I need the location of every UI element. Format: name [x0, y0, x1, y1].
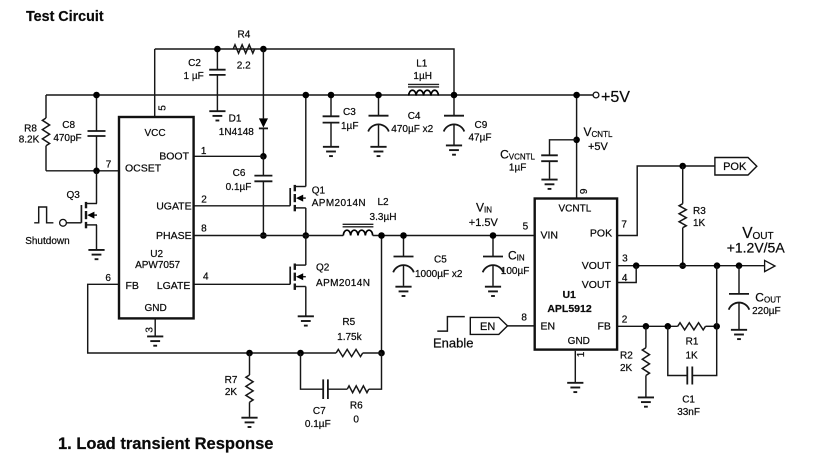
- svg-text:POK: POK: [590, 228, 612, 240]
- svg-text:+1.2V/5A: +1.2V/5A: [727, 239, 786, 255]
- svg-text:C8: C8: [62, 120, 75, 131]
- svg-text:1µF: 1µF: [341, 121, 358, 132]
- svg-text:8.2K: 8.2K: [19, 135, 40, 146]
- svg-text:1K: 1K: [693, 218, 706, 229]
- svg-text:5: 5: [157, 105, 168, 111]
- svg-text:APM2014N: APM2014N: [312, 198, 366, 209]
- svg-text:C5: C5: [434, 255, 447, 266]
- svg-text:D1: D1: [229, 114, 242, 125]
- svg-text:C4: C4: [408, 111, 421, 122]
- svg-text:+5V: +5V: [601, 89, 630, 106]
- svg-text:R4: R4: [238, 30, 251, 41]
- svg-text:4: 4: [203, 271, 209, 282]
- svg-text:2.2: 2.2: [237, 61, 251, 72]
- svg-text:C1: C1: [682, 395, 695, 406]
- svg-text:1µH: 1µH: [413, 71, 432, 82]
- svg-text:VCNTL: VCNTL: [559, 203, 592, 214]
- svg-text:U2: U2: [150, 249, 163, 260]
- svg-text:VOUT: VOUT: [582, 260, 612, 272]
- svg-text:470µF x2: 470µF x2: [391, 124, 433, 135]
- svg-text:R6: R6: [350, 400, 363, 411]
- svg-text:4: 4: [622, 273, 628, 284]
- svg-text:APW7057: APW7057: [135, 260, 180, 271]
- svg-text:FB: FB: [126, 280, 139, 292]
- svg-text:R3: R3: [693, 206, 706, 217]
- svg-text:Q2: Q2: [316, 262, 330, 273]
- svg-text:EN: EN: [541, 321, 556, 333]
- svg-text:220µF: 220µF: [752, 306, 781, 317]
- svg-text:0: 0: [353, 415, 359, 426]
- svg-text:Shutdown: Shutdown: [25, 236, 69, 247]
- svg-text:1µF: 1µF: [509, 162, 526, 173]
- svg-text:EN: EN: [480, 321, 495, 333]
- svg-text:2: 2: [201, 194, 207, 205]
- svg-text:R8: R8: [24, 123, 37, 134]
- svg-text:APM2014N: APM2014N: [316, 278, 370, 289]
- svg-text:2K: 2K: [225, 387, 238, 398]
- svg-text:9: 9: [579, 188, 590, 194]
- svg-text:8: 8: [521, 312, 527, 323]
- svg-text:Q1: Q1: [312, 185, 326, 196]
- svg-text:C2: C2: [188, 58, 201, 69]
- svg-text:2K: 2K: [620, 363, 633, 374]
- svg-text:PHASE: PHASE: [156, 230, 192, 242]
- svg-text:C3: C3: [343, 107, 356, 118]
- svg-text:1K: 1K: [685, 351, 698, 362]
- svg-text:1. Load transient Response: 1. Load transient Response: [58, 435, 273, 453]
- svg-text:6: 6: [105, 273, 111, 284]
- svg-text:5: 5: [523, 222, 529, 233]
- svg-text:R7: R7: [225, 375, 238, 386]
- svg-text:0.1µF: 0.1µF: [226, 182, 252, 193]
- svg-text:GND: GND: [144, 303, 166, 314]
- svg-text:POK: POK: [723, 161, 747, 173]
- svg-text:APL5912: APL5912: [547, 303, 592, 315]
- svg-text:LGATE: LGATE: [157, 280, 191, 292]
- svg-text:1N4148: 1N4148: [219, 127, 254, 138]
- svg-text:OCSET: OCSET: [125, 163, 162, 175]
- svg-text:1: 1: [576, 351, 587, 357]
- svg-text:R5: R5: [342, 317, 355, 328]
- svg-text:3: 3: [144, 327, 155, 333]
- svg-text:470pF: 470pF: [53, 133, 81, 144]
- svg-text:R1: R1: [686, 337, 699, 348]
- svg-text:VIN: VIN: [541, 229, 559, 241]
- svg-text:VOUT: VOUT: [582, 279, 612, 291]
- svg-text:VCC: VCC: [144, 128, 165, 139]
- svg-text:Enable: Enable: [433, 335, 473, 350]
- svg-text:8: 8: [201, 224, 207, 235]
- svg-text:Q3: Q3: [67, 190, 81, 201]
- svg-text:7: 7: [106, 159, 112, 170]
- svg-text:3.3µH: 3.3µH: [370, 212, 397, 223]
- svg-text:+1.5V: +1.5V: [469, 217, 499, 229]
- svg-text:1.75k: 1.75k: [337, 332, 362, 343]
- svg-text:1000µF x2: 1000µF x2: [415, 269, 463, 280]
- svg-text:L1: L1: [416, 59, 428, 70]
- svg-text:2: 2: [622, 314, 628, 325]
- svg-text:C6: C6: [233, 168, 246, 179]
- svg-text:BOOT: BOOT: [159, 150, 189, 162]
- svg-text:L2: L2: [377, 197, 389, 208]
- svg-text:GND: GND: [568, 336, 590, 347]
- svg-text:33nF: 33nF: [677, 407, 700, 418]
- svg-text:47µF: 47µF: [469, 133, 492, 144]
- svg-text:1 µF: 1 µF: [183, 71, 203, 82]
- svg-text:UGATE: UGATE: [156, 201, 191, 213]
- svg-text:C7: C7: [313, 406, 326, 417]
- svg-text:7: 7: [621, 219, 627, 230]
- svg-text:U1: U1: [562, 289, 576, 301]
- svg-text:1: 1: [201, 146, 207, 157]
- svg-text:+5V: +5V: [588, 141, 609, 153]
- svg-text:3: 3: [622, 254, 628, 265]
- svg-text:FB: FB: [597, 321, 610, 333]
- svg-text:0.1µF: 0.1µF: [305, 419, 331, 430]
- svg-text:R2: R2: [620, 351, 633, 362]
- svg-text:Test Circuit: Test Circuit: [26, 9, 104, 25]
- svg-text:C9: C9: [475, 120, 488, 131]
- svg-text:100µF: 100µF: [501, 266, 530, 277]
